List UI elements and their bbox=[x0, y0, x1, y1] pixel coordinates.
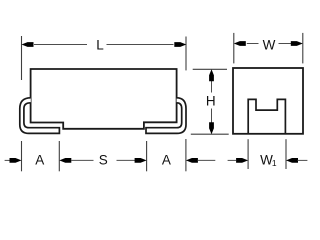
dimension W left arrowhead bbox=[234, 41, 246, 46]
left terminal lead bbox=[20, 98, 60, 134]
bottom extension line 3 (right foot end) bbox=[146, 141, 148, 171]
dimension L extension line left bbox=[21, 36, 23, 80]
dimension A left: outside arrow and tail bbox=[5, 159, 10, 161]
dimension W right arrowhead bbox=[291, 41, 303, 46]
dimension L line bbox=[34, 44, 87, 46]
capacitor body (end view) bbox=[233, 68, 303, 134]
right terminal lead bbox=[146, 98, 186, 134]
capacitor body (front view) bbox=[31, 69, 177, 129]
dimension H top arrowhead bbox=[209, 69, 214, 81]
dimension S line left segment bbox=[71, 159, 94, 161]
svg-text:A: A bbox=[35, 152, 44, 167]
dimension H extension line bottom bbox=[191, 133, 229, 135]
svg-text:A: A bbox=[162, 152, 171, 167]
svg-text:S: S bbox=[99, 152, 108, 167]
dimension W line bbox=[247, 43, 259, 45]
dimension W1 extension line left bbox=[247, 139, 249, 169]
dimension L right arrowhead bbox=[174, 42, 186, 47]
dimension W1 extension line right bbox=[285, 139, 287, 169]
dimension H line bbox=[211, 81, 213, 93]
dimension W extension line left bbox=[233, 33, 235, 64]
svg-text:1: 1 bbox=[272, 158, 277, 168]
svg-text:L: L bbox=[96, 37, 104, 52]
dimension W1 right outside arrow and tail bbox=[286, 158, 298, 163]
lead profile (end view) bbox=[248, 99, 285, 133]
dimension L extension line right bbox=[185, 37, 187, 71]
dimension A right: outside arrow and tail bbox=[186, 158, 198, 163]
bottom extension line 1 (lead outer left) bbox=[21, 141, 23, 171]
bottom extension line 2 (left foot end) bbox=[58, 141, 60, 171]
dimension S line right segment bbox=[117, 159, 136, 161]
dimension S left arrowhead bbox=[59, 158, 71, 163]
dimension H bottom arrowhead bbox=[209, 122, 214, 134]
svg-text:W: W bbox=[263, 37, 276, 52]
bottom extension line 4 (lead outer right) bbox=[185, 139, 187, 171]
svg-text:H: H bbox=[206, 93, 216, 108]
dimension W1 left outside arrow and tail bbox=[228, 159, 236, 161]
dimension L left arrowhead bbox=[22, 42, 34, 47]
dimension S right arrowhead bbox=[135, 158, 147, 163]
dimension W extension line right bbox=[302, 33, 304, 64]
dimension H extension line top bbox=[193, 68, 227, 70]
